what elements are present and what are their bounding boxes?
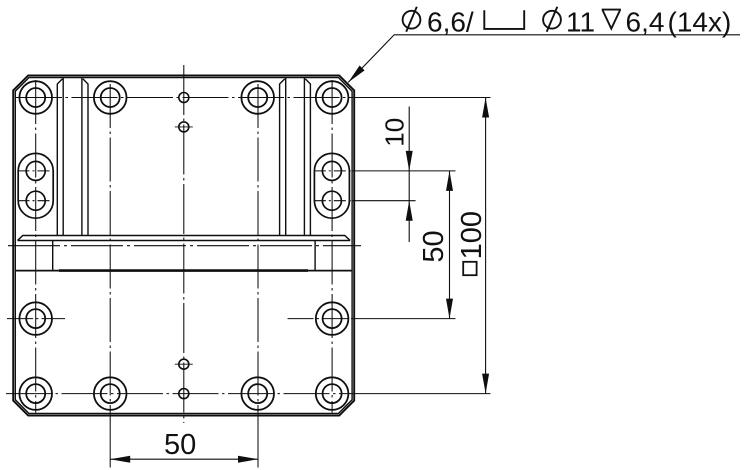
cross rail right end vertical: [314, 241, 316, 271]
slot left stadium: [18, 153, 53, 218]
leader arrowhead: [348, 66, 364, 83]
hole H2 counterbore top: [94, 81, 127, 114]
hole S3 in right slot: [322, 161, 341, 180]
hole H6 counterbore mid-right: [316, 302, 349, 335]
centerline vertical x258 with extension to bottom dim: [257, 84, 259, 413]
rail line left2 inner: [81, 78, 83, 236]
hole S4 in right slot: [322, 191, 341, 210]
note text diameter symbol 1: [403, 7, 421, 32]
slot right stadium: [314, 153, 349, 218]
svg-text:100: 100: [456, 211, 488, 259]
counterbore symbol: [484, 10, 524, 29]
dimension line 100: [485, 98, 487, 394]
note text diameter symbol 2: [543, 7, 561, 32]
centerline slot left lower: [18, 200, 55, 202]
hole H5 counterbore mid-left: [19, 302, 52, 335]
arrow 100 down: [482, 374, 489, 394]
cross rail upper line: [18, 240, 351, 242]
plate outer outline: [13, 75, 354, 415]
centerline slot right upper + extension for 10/50 dims: [314, 170, 352, 172]
centerline vertical x110 with extension to bottom dim: [109, 84, 111, 413]
leader line counterbore note: [348, 35, 740, 83]
svg-text:(14x): (14x): [668, 7, 732, 38]
centerline horizontal top row + extension for 100 dim: [16, 97, 356, 99]
arrow 50 bottom right: [238, 456, 258, 463]
svg-text:10: 10: [380, 118, 410, 147]
small hole center top: [179, 93, 189, 103]
depth symbol: [602, 10, 621, 29]
centerline vertical middle: [183, 65, 185, 423]
centerline vertical left column: [35, 80, 37, 413]
centerline vertical right column: [331, 80, 333, 413]
svg-text:50: 50: [418, 230, 450, 262]
hole H10 counterbore bottom-right: [316, 377, 349, 410]
small hole with cross lower: [175, 359, 193, 369]
hole S2 in left slot: [26, 191, 45, 210]
cross rail left end vertical: [52, 241, 54, 271]
arrow 50 bottom left: [110, 456, 130, 463]
arrow 10 down: [406, 151, 413, 171]
centerline mid row left: [7, 318, 65, 320]
svg-text:50: 50: [164, 429, 196, 461]
svg-text:11: 11: [566, 7, 595, 38]
rail line left outer: [57, 79, 62, 236]
rail line left2 outer: [83, 79, 88, 236]
centerline cross rail horizontal: [8, 245, 361, 247]
cross rail top edge with end chamfers: [18, 236, 351, 241]
hole H4 counterbore top-right: [316, 81, 349, 114]
plate inner contour line: [15, 78, 352, 414]
centerline horizontal bottom row + extension for 100 dim: [6, 393, 356, 395]
hole H1 counterbore top-left: [19, 81, 52, 114]
svg-text:6,4: 6,4: [626, 7, 665, 38]
hole H3 counterbore top: [241, 81, 274, 114]
dimension line 50 right: [449, 171, 451, 319]
small hole center bottom: [179, 389, 189, 399]
small hole with cross upper: [175, 122, 193, 132]
rail line right inner: [303, 78, 305, 236]
centerline mid row right + extension for 50 dim: [288, 318, 353, 320]
hole H8 counterbore bottom: [94, 377, 127, 410]
arrow 50 up: [446, 171, 453, 191]
rail line left inner: [62, 78, 64, 236]
rail line right2 outer: [280, 79, 285, 236]
square symbol of dim 100: [463, 262, 476, 275]
rail line right outer: [305, 79, 310, 236]
rail line right2 inner: [285, 78, 287, 236]
arrow 10 up: [406, 201, 413, 221]
centerline slot left upper: [18, 170, 55, 172]
cross rail bottom line: [16, 270, 352, 272]
dimension line 50 bottom: [110, 458, 258, 460]
centerline slot right lower + extension for 10 dim: [314, 200, 352, 202]
hole H9 counterbore bottom: [241, 377, 274, 410]
arrow 50 down: [446, 299, 453, 319]
arrow 100 up: [482, 98, 489, 118]
hole S1 in left slot: [26, 161, 45, 180]
cross rail bottom jaw edge thick: [59, 269, 308, 272]
svg-text:6,6/: 6,6/: [427, 7, 474, 38]
dimension line 10: [408, 107, 410, 243]
hole H7 counterbore bottom-left: [19, 377, 52, 410]
